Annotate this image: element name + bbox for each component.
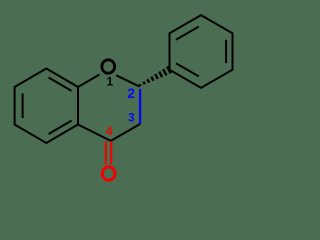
- atom O (carbonyl oxygen, red O): [102, 167, 115, 180]
- double bond C4=O (red, line 1): [105, 141, 107, 164]
- phenyl ring B outer hexagon: [170, 15, 233, 88]
- benzo ring A inner double bond (top-right edge): [49, 78, 72, 91]
- benzo ring A inner double bond (left edge): [22, 94, 24, 119]
- bond C4-C4a: [78, 125, 111, 141]
- svg-text:3: 3: [128, 112, 134, 124]
- svg-text:2: 2: [127, 85, 135, 101]
- svg-text:1: 1: [107, 75, 114, 89]
- bond C3-C4: [111, 124, 140, 141]
- bond C8a-O1: [78, 75, 100, 88]
- atom O1 (ring oxygen, black O): [102, 60, 115, 73]
- double bond C4=O (red, line 2): [110, 141, 112, 164]
- phenyl ring B inner double bond (bottom-left edge): [176, 63, 199, 76]
- phenyl ring B inner double bond (top-left edge): [176, 27, 199, 40]
- bond O1-C2: [116, 75, 140, 86]
- benzo ring A inner double bond (bottom-right edge): [49, 121, 72, 134]
- phenyl ring B inner double bond (right edge): [225, 40, 227, 63]
- svg-text:4: 4: [106, 126, 113, 138]
- bond C2-C3 (blue): [139, 89, 141, 124]
- benzo ring A outer hexagon: [15, 69, 78, 144]
- hashed wedge bond C2-C1' (stereo): [139, 67, 170, 87]
